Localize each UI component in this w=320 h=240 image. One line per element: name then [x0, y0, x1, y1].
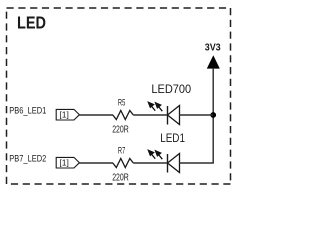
port tag PB6_LED1	[56, 109, 79, 120]
svg-text:R7: R7	[118, 145, 125, 156]
svg-text:[1]: [1]	[59, 109, 68, 119]
LED1 emission arrows	[148, 150, 162, 159]
svg-text:PB6_LED1: PB6_LED1	[9, 106, 46, 116]
svg-text:LED1: LED1	[160, 131, 185, 145]
resistor R5	[113, 111, 134, 120]
wire row2: tag to R7	[79, 162, 113, 164]
svg-text:R5: R5	[118, 97, 125, 108]
resistor R7	[113, 159, 134, 168]
svg-text:LED700: LED700	[151, 82, 191, 96]
svg-text:[1]: [1]	[59, 157, 68, 167]
wire: 3V3 rail vertical	[212, 68, 214, 163]
wire row2: R7 to LED1	[133, 162, 167, 164]
wire row1: tag to R5	[79, 114, 113, 116]
svg-text:220R: 220R	[112, 172, 129, 184]
svg-text:PB7_LED2: PB7_LED2	[9, 154, 46, 164]
node junction dot	[210, 112, 216, 118]
port tag PB7_LED2	[56, 157, 79, 168]
LED1 cathode bar	[167, 154, 169, 173]
svg-text:220R: 220R	[112, 124, 129, 136]
LED1 triangle	[168, 154, 180, 173]
wire row2: LED1 to rail	[180, 162, 214, 164]
LED700 cathode bar	[167, 106, 169, 125]
power symbol 3V3 (arrow up)	[207, 55, 220, 68]
LED700 triangle	[168, 106, 180, 125]
LED700 emission arrows	[148, 102, 162, 111]
sheet border (dashed)	[7, 8, 231, 184]
svg-text:LED: LED	[17, 13, 46, 33]
svg-text:3V3: 3V3	[205, 42, 221, 53]
wire row1: LED700 to rail	[180, 114, 214, 116]
wire row1: R5 to LED700	[133, 114, 167, 116]
